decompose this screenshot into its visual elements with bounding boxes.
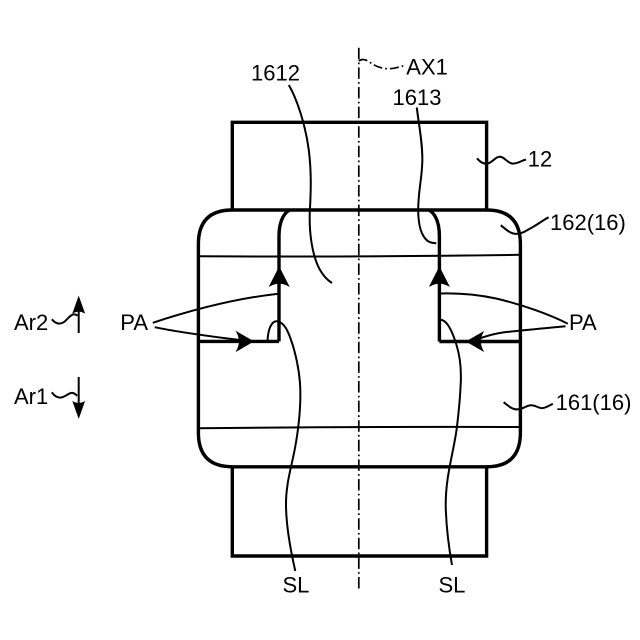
right slit leftward arrowhead [467,332,484,351]
svg-text:1613: 1613 [393,85,442,110]
shaft 12 upper rectangle [232,122,486,210]
leader SL right [440,320,461,565]
leader Ar1 (wavy) [52,392,77,397]
leader AX1 (dash-dot wavy) [359,60,405,69]
leader PA right to up arrow [440,293,568,323]
shaft 12 lower rectangle [232,467,486,556]
leader PA left to right arrow [155,327,240,340]
axis AX1 centerline (dash-dot vertical) [358,48,360,589]
leader 12 (wavy) [477,157,526,164]
leader 162(16) (wavy) [501,217,549,234]
svg-text:SL: SL [283,573,310,598]
left slit rightward arrowhead [237,332,254,351]
leader PA right to left arrow [478,326,566,339]
boundary line of 162 [198,255,520,257]
right slit SL outline [429,210,521,342]
boundary line of 161 [198,427,520,428]
left slit up arrowhead [270,267,289,286]
svg-text:PA: PA [120,310,148,335]
right slit up arrowhead [430,267,449,286]
svg-text:SL: SL [439,573,466,598]
arrow Ar1 (down) [78,377,80,405]
leader 1613 [417,108,437,244]
left slit SL outline [198,210,289,341]
leader 1612 [289,85,332,283]
svg-text:Ar2: Ar2 [14,310,48,335]
leader Ar2 (wavy) [52,314,78,323]
leader SL left [268,321,301,571]
svg-text:12: 12 [528,146,552,171]
svg-text:Ar1: Ar1 [14,384,48,409]
svg-text:1612: 1612 [251,61,300,86]
svg-text:161(16): 161(16) [556,390,632,415]
leader PA left to up arrow [153,294,279,323]
elastic body 16 outline (rounded rectangle) [198,210,520,467]
svg-text:AX1: AX1 [406,55,448,80]
svg-text:PA: PA [569,310,597,335]
arrow Ar2 (up) [78,310,80,333]
leader 161(16) (wavy) [504,402,553,409]
svg-text:162(16): 162(16) [550,210,626,235]
